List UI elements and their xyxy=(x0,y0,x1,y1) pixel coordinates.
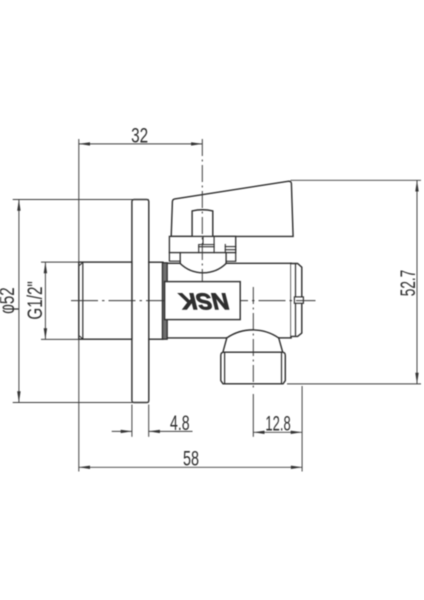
svg-text:φ52: φ52 xyxy=(0,287,19,314)
svg-text:G1/2": G1/2" xyxy=(23,281,47,320)
svg-text:12.8: 12.8 xyxy=(265,411,290,435)
svg-text:32: 32 xyxy=(131,124,148,148)
svg-text:NSK: NSK xyxy=(177,288,232,314)
svg-text:52.7: 52.7 xyxy=(396,270,420,296)
svg-text:4.8: 4.8 xyxy=(170,411,190,435)
svg-text:58: 58 xyxy=(183,446,199,470)
